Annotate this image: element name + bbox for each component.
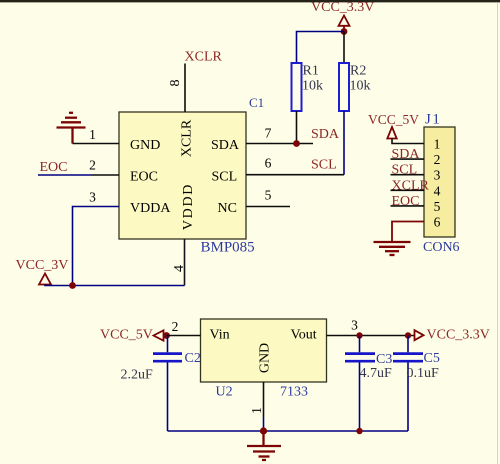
- svg-text:5: 5: [265, 188, 272, 203]
- svg-text:Vout: Vout: [291, 328, 317, 343]
- wire pin7 SDA: [246, 143, 313, 145]
- svg-text:4.7uF: 4.7uF: [360, 366, 393, 381]
- svg-text:1: 1: [89, 127, 96, 142]
- svg-text:XCLR: XCLR: [180, 119, 195, 157]
- svg-text:7133: 7133: [280, 385, 308, 400]
- svg-text:10k: 10k: [350, 79, 371, 94]
- svg-text:SCL: SCL: [311, 158, 337, 173]
- wire U2 Vout (pin 3) to VCC_3.3V: [327, 335, 415, 337]
- svg-text:GND: GND: [258, 343, 273, 373]
- svg-text:BMP085: BMP085: [201, 240, 255, 256]
- ground (earth, above pin 1): [57, 113, 86, 144]
- wire pin4 VDDD (vertical): [184, 239, 186, 286]
- svg-text:R2: R2: [350, 64, 366, 79]
- svg-text:EOC: EOC: [392, 194, 420, 209]
- op-amp U1 : IC C1 BMP085 body: [119, 112, 246, 239]
- power symbol VCC_3.3V (top): [339, 16, 350, 30]
- svg-text:3: 3: [351, 318, 358, 333]
- power symbol VCC_5V (J1): [387, 127, 396, 139]
- svg-text:C1: C1: [249, 95, 264, 110]
- svg-text:VCC_3.3V: VCC_3.3V: [311, 0, 374, 15]
- wire U2 pin1 GND: [263, 382, 265, 417]
- junction VCC_3.3V node: [341, 28, 348, 35]
- svg-text:C2: C2: [185, 351, 201, 366]
- svg-text:7: 7: [265, 126, 272, 141]
- svg-text:1: 1: [434, 137, 441, 152]
- svg-text:VCC_3.3V: VCC_3.3V: [427, 328, 490, 343]
- svg-text:NC: NC: [218, 201, 237, 216]
- svg-text:VCC_5V: VCC_5V: [100, 328, 153, 343]
- resistor R2: [339, 63, 349, 111]
- svg-text:SCL: SCL: [212, 170, 238, 185]
- svg-text:4: 4: [434, 183, 441, 198]
- junction rail/C3: [356, 428, 362, 434]
- svg-text:VCC_3V: VCC_3V: [16, 258, 69, 273]
- svg-text:8: 8: [168, 80, 183, 87]
- junction SDA/R1: [293, 140, 300, 147]
- svg-text:SDA: SDA: [211, 138, 240, 153]
- junction Vout/C3: [356, 332, 362, 338]
- wire VCC_3.3V to R2 top: [343, 32, 345, 64]
- svg-text:VCC_5V: VCC_5V: [368, 112, 419, 127]
- svg-text:2: 2: [434, 152, 441, 167]
- svg-text:0.1uF: 0.1uF: [407, 366, 440, 381]
- svg-text:5: 5: [434, 199, 441, 214]
- svg-text:2: 2: [172, 319, 179, 334]
- svg-text:3: 3: [89, 190, 96, 205]
- svg-text:1: 1: [250, 407, 265, 414]
- wire pin6 SCL: [246, 174, 344, 176]
- wire pin5 NC stub: [246, 206, 290, 208]
- ground (U2 bottom): [247, 431, 281, 460]
- svg-text:SDA: SDA: [392, 147, 421, 162]
- svg-text:2: 2: [89, 158, 96, 173]
- wire J1 pin3 SCL: [391, 174, 425, 176]
- svg-text:6: 6: [434, 215, 441, 230]
- svg-text:J1: J1: [425, 112, 441, 128]
- svg-text:GND: GND: [130, 138, 160, 153]
- wire ground rail (bottom): [168, 430, 409, 432]
- capacitor C2: [167, 336, 169, 353]
- ground (J1): [374, 242, 411, 255]
- svg-text:EOC: EOC: [40, 160, 68, 175]
- wire J1 pin5 EOC: [391, 205, 425, 207]
- wire R1 bottom to SDA net: [296, 111, 298, 144]
- wire pin8 XCLR: [184, 64, 186, 113]
- wire J1 pin2 SDA: [391, 158, 425, 160]
- svg-text:2.2uF: 2.2uF: [121, 368, 154, 383]
- wire pin3 VDDA to VCC_3V rail: [73, 207, 120, 286]
- capacitor C5: [407, 336, 409, 353]
- svg-text:3: 3: [434, 168, 441, 183]
- junction VCC_5V/C2: [163, 332, 170, 339]
- wire J1 pin4 XCLR: [391, 189, 425, 191]
- svg-text:EOC: EOC: [130, 170, 158, 185]
- wire pin1 GND: [73, 143, 120, 145]
- svg-text:XCLR: XCLR: [185, 50, 223, 65]
- wire VCC_3.3V to R1 top: [297, 32, 345, 64]
- svg-text:10k: 10k: [302, 79, 323, 94]
- wire R2 bottom to SCL net: [343, 111, 345, 175]
- svg-text:SDA: SDA: [311, 127, 340, 142]
- power symbol VCC_5V (U2 left): [154, 330, 164, 340]
- svg-text:U2: U2: [216, 385, 233, 400]
- svg-text:R1: R1: [303, 64, 319, 79]
- connector J1 body: [424, 127, 455, 237]
- wire VCC_5V to U2 Vin (pin 2): [167, 335, 201, 337]
- svg-text:SCL: SCL: [392, 163, 418, 178]
- wire pin2 EOC: [38, 174, 92, 176]
- svg-text:Vin: Vin: [210, 328, 230, 343]
- wire J1 pin6 to ground: [392, 222, 424, 242]
- wire J1 pin1 to VCC_5V: [392, 139, 424, 144]
- svg-text:CON6: CON6: [423, 240, 460, 255]
- svg-text:VDDA: VDDA: [130, 201, 171, 216]
- svg-text:C3: C3: [376, 352, 392, 367]
- power symbol VCC_3.3V (U2 right): [415, 330, 424, 340]
- svg-text:C5: C5: [424, 351, 440, 366]
- svg-text:VDDD: VDDD: [181, 183, 196, 230]
- junction pin3/VCC_3V: [69, 282, 76, 289]
- svg-text:6: 6: [265, 156, 272, 171]
- regulator U2 7133 body: [201, 319, 327, 382]
- junction rail/U2 pin1: [260, 427, 267, 434]
- wire VCC_3V rail to pin4: [45, 285, 185, 286]
- svg-text:XCLR: XCLR: [392, 178, 430, 193]
- power symbol VCC_3V: [39, 274, 51, 285]
- resistor R1: [292, 63, 302, 111]
- capacitor C3: [359, 336, 361, 353]
- junction Vout/C5: [405, 332, 411, 338]
